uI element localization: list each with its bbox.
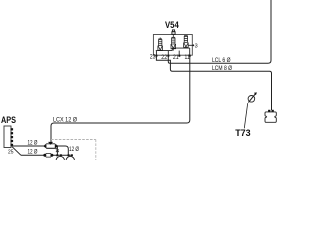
svg-text:12 Ø: 12 Ø: [28, 140, 38, 147]
svg-text:LCM 8 Ø: LCM 8 Ø: [212, 65, 232, 72]
svg-text:25: 25: [8, 149, 14, 155]
svg-text:V54: V54: [165, 20, 179, 30]
svg-text:12 Ø: 12 Ø: [28, 149, 38, 156]
svg-text:APS: APS: [1, 115, 16, 125]
svg-text:T73: T73: [235, 128, 250, 138]
svg-text:LCX 12 Ø: LCX 12 Ø: [53, 116, 77, 123]
svg-text:LCL 6 Ø: LCL 6 Ø: [212, 57, 231, 64]
svg-text:21: 21: [173, 55, 179, 61]
svg-text:12 Ø: 12 Ø: [69, 146, 79, 153]
svg-text:23: 23: [150, 55, 156, 61]
svg-text:3: 3: [195, 44, 198, 50]
